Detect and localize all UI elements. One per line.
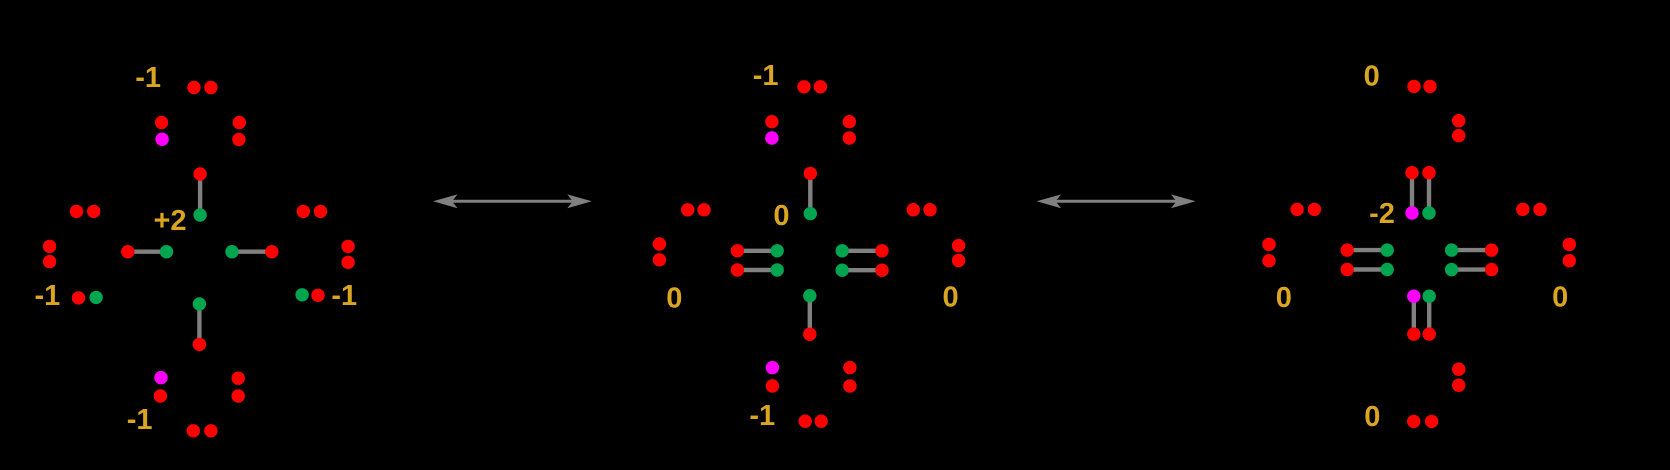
S1 right O lone pair E	[341, 240, 354, 269]
S2 bottom O charge -1	[749, 400, 775, 432]
S2 bond S-O top (single)	[804, 167, 817, 221]
S3 double bond S-O right	[1445, 243, 1498, 276]
S1 top O lone pair E	[232, 116, 246, 146]
S3 top O charge 0	[1364, 61, 1380, 93]
S3 left O lone pair W	[1262, 238, 1275, 268]
S2 right O charge 0	[943, 282, 959, 314]
svg-text:-1: -1	[749, 400, 775, 432]
S1 bottom O charge -1	[127, 404, 153, 436]
S3 left O charge 0	[1276, 282, 1292, 314]
S3 bottom O charge 0	[1364, 401, 1380, 433]
S3 double bond S-O bottom (magenta + green inner)	[1407, 290, 1436, 341]
structure 2: sulfate with two double bonds (left,right)	[0, 0, 1, 1]
svg-text:-1: -1	[127, 404, 153, 436]
S3 left O lone pair N	[1290, 203, 1321, 216]
S2 bottom O lone pair S	[799, 415, 828, 428]
svg-text:0: 0	[1552, 282, 1568, 314]
S2 right O lone pair E	[952, 239, 965, 267]
S1 left O lone pair S (red + green transferred electron)	[72, 291, 103, 305]
S2 top O lone pair E	[843, 115, 856, 145]
svg-text:-1: -1	[35, 280, 61, 312]
S2 left O lone pair W	[653, 237, 666, 266]
S3 double bond S-O left	[1341, 243, 1394, 276]
svg-text:0: 0	[1364, 401, 1380, 433]
resonance double-headed arrow 2	[1037, 194, 1196, 208]
S3 double bond S-O top (magenta + green S electrons inner)	[1405, 166, 1435, 220]
S1 top O lone pair N	[187, 81, 217, 94]
S2 top O lone pair N	[797, 80, 827, 93]
S1 bond S-O left (single)	[121, 245, 173, 258]
S3 central atom formal charge -2	[1369, 198, 1395, 230]
S1 bond S-O bottom (single)	[193, 297, 206, 351]
S2 top O lone pair W (red + magenta extra electron)	[765, 115, 778, 145]
structure 1: sulfate with four single bonds	[0, 0, 1, 1]
S1 bottom O lone pair E	[232, 372, 245, 403]
svg-text:0: 0	[1364, 61, 1380, 93]
S1 bond S-O right (single)	[225, 245, 278, 258]
S3 right O charge 0	[1552, 282, 1568, 314]
S1 right O lone pair S (green transferred electron + red)	[295, 288, 324, 302]
S2 right O lone pair N	[907, 203, 937, 216]
svg-text:-1: -1	[135, 62, 161, 94]
S1 left O lone pair N	[70, 205, 101, 218]
S3 top O lone pair N	[1407, 80, 1436, 93]
S3 top O lone pair E	[1452, 114, 1465, 142]
S1 left O lone pair W	[43, 240, 56, 269]
S3 bottom O lone pair E	[1452, 363, 1465, 392]
S3 right O lone pair N	[1516, 203, 1547, 216]
S1 right O lone pair N	[297, 205, 328, 218]
S1 top O charge -1	[135, 62, 161, 94]
S3 bottom O lone pair S	[1407, 415, 1438, 428]
svg-text:0: 0	[666, 283, 682, 315]
S2 double bond S-O left	[731, 244, 784, 277]
S2 double bond S-O right	[836, 244, 889, 277]
S2 left O lone pair N	[681, 203, 711, 216]
S1 bond S-O top (single): line, red O electron, green S electron	[193, 167, 206, 221]
S2 left O charge 0	[666, 283, 682, 315]
S1 bottom O lone pair S	[187, 424, 218, 437]
S1 bottom O lone pair W (magenta extra electron + red)	[154, 371, 168, 403]
S1 right O charge -1	[331, 280, 357, 312]
S1 left O charge -1	[35, 280, 61, 312]
svg-text:+2: +2	[153, 205, 186, 237]
svg-text:0: 0	[1276, 282, 1292, 314]
svg-text:-1: -1	[331, 280, 357, 312]
S2 bottom O lone pair E	[843, 361, 856, 393]
svg-text:0: 0	[943, 282, 959, 314]
S2 top O charge -1	[753, 60, 779, 92]
structure 3: sulfate with four double bonds	[0, 0, 1, 1]
svg-text:0: 0	[773, 200, 789, 232]
S3 right O lone pair E	[1563, 238, 1576, 268]
svg-text:-2: -2	[1369, 198, 1395, 230]
S1 top O lone pair W (red + magenta extra electron)	[155, 116, 169, 146]
S2 bond S-O bottom (single)	[803, 289, 816, 341]
S1 central atom formal charge +2	[153, 205, 186, 237]
svg-text:-1: -1	[753, 60, 779, 92]
S2 central atom formal charge 0	[773, 200, 789, 232]
resonance double-headed arrow 1	[433, 194, 592, 208]
S2 bottom O lone pair W (magenta extra electron + red)	[766, 361, 779, 393]
